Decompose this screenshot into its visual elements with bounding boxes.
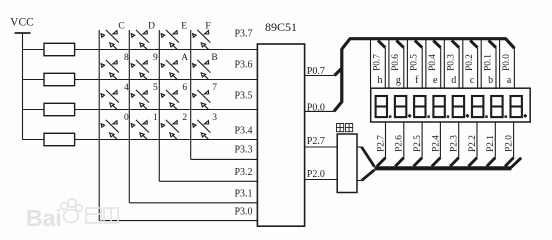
decimal point 5 (diamond)	[465, 114, 469, 118]
column wire 3	[158, 30, 160, 181]
key switch "9"	[131, 60, 149, 79]
svg-text:P2.7: P2.7	[376, 135, 386, 152]
display digit 3	[414, 96, 425, 117]
P2 bus end tick	[511, 158, 522, 168]
display digit 1	[376, 96, 387, 117]
svg-text:P2.3: P2.3	[450, 135, 460, 152]
decimal point 8 (diamond)	[523, 114, 527, 118]
column 1 elbow to P3.0	[99, 220, 257, 222]
svg-text:P0.3: P0.3	[447, 54, 457, 71]
stub wire P2.0	[305, 179, 338, 181]
svg-text:P3.2: P3.2	[234, 167, 252, 178]
svg-text:P2.7: P2.7	[307, 136, 325, 147]
display digit 8	[511, 96, 522, 117]
svg-text:h: h	[377, 75, 382, 86]
svg-text:a: a	[507, 75, 512, 86]
display anode band P0.2/c	[463, 40, 478, 88]
svg-text:VCC: VCC	[10, 17, 34, 29]
display digit 6	[472, 96, 483, 117]
svg-text:b: b	[488, 75, 493, 86]
resistor R4	[44, 133, 75, 145]
svg-text:P0.7: P0.7	[307, 66, 325, 77]
decimal point 2 (diamond)	[408, 114, 412, 118]
column wire 1	[98, 30, 100, 221]
display cathode wire P2.1	[494, 122, 496, 158]
svg-text:C: C	[118, 21, 124, 31]
svg-text:8: 8	[124, 53, 129, 63]
display anode band P0.1/b	[481, 40, 496, 88]
display anode band P0.3/d	[444, 40, 459, 88]
decimal point 3	[427, 115, 430, 118]
decimal point 7	[505, 115, 508, 118]
svg-text:E: E	[181, 21, 187, 31]
VCC vertical rail wire	[22, 33, 24, 140]
svg-text:7: 7	[212, 83, 217, 93]
svg-text:D: D	[148, 21, 155, 31]
svg-text:F: F	[205, 21, 210, 31]
key switch "8"	[101, 60, 119, 79]
P0 data bus	[334, 39, 514, 112]
svg-text:5: 5	[153, 83, 158, 93]
display digit 2	[395, 96, 406, 117]
svg-text:P3.6: P3.6	[234, 60, 252, 71]
svg-text:c: c	[470, 75, 475, 86]
driver block body	[337, 134, 357, 193]
svg-text:P0.7: P0.7	[373, 54, 383, 71]
key switch "4"	[101, 90, 119, 109]
row wire P3.4 y=139.5	[23, 139, 258, 141]
svg-text:P0.0: P0.0	[307, 102, 325, 113]
driver out notch top	[357, 146, 362, 148]
resistor R2	[44, 73, 75, 85]
svg-text:P0.4: P0.4	[428, 54, 438, 71]
decimal point 6	[485, 115, 488, 118]
svg-text:g: g	[396, 75, 401, 86]
svg-text:P3.7: P3.7	[234, 29, 252, 40]
svg-text:89C51: 89C51	[265, 20, 297, 34]
row wire P3.7 y=49.5	[23, 49, 258, 51]
svg-text:P0.1: P0.1	[483, 54, 493, 71]
svg-text:6: 6	[182, 83, 187, 93]
svg-text:P2.1: P2.1	[486, 135, 496, 152]
key switch "2"	[161, 120, 179, 139]
svg-text:P2.0: P2.0	[505, 135, 515, 152]
8-digit 7-segment display body	[371, 88, 531, 122]
key switch "1"	[131, 120, 149, 139]
svg-text:A: A	[181, 53, 188, 63]
key switch "F"	[193, 30, 211, 49]
driver funnel diagonal bottom	[362, 170, 375, 181]
svg-text:P2.4: P2.4	[431, 135, 441, 152]
P2 select bus	[374, 166, 511, 170]
display cathode wire P2.3	[458, 122, 460, 158]
resistor R1	[44, 43, 75, 55]
resistor R3	[44, 103, 75, 115]
column 3 elbow to P3.2	[159, 180, 257, 182]
column 4 elbow to P3.3	[191, 158, 258, 160]
decimal point 4	[447, 115, 450, 118]
svg-text:P0.6: P0.6	[391, 54, 401, 71]
svg-text:P0.2: P0.2	[465, 54, 475, 71]
key switch "6"	[161, 90, 179, 109]
key switch "3"	[193, 120, 211, 139]
display digit 7	[491, 96, 502, 117]
svg-text:P2.0: P2.0	[307, 169, 325, 180]
key switch "E"	[161, 30, 179, 49]
svg-text:9: 9	[153, 53, 158, 63]
svg-text:P3.5: P3.5	[234, 91, 252, 102]
svg-text:1: 1	[153, 113, 158, 123]
display anode band P0.7/h	[371, 40, 386, 88]
column wire 4	[190, 30, 192, 159]
svg-text:P2.2: P2.2	[468, 135, 478, 152]
svg-text:P0.0: P0.0	[502, 54, 512, 71]
key switch "C"	[101, 30, 119, 49]
row wire P3.6 y=79.5	[23, 79, 258, 81]
stub wire P0.7	[305, 75, 335, 77]
key switch "0"	[101, 120, 119, 139]
svg-text:Bai: Bai	[26, 205, 62, 231]
display digit 5	[453, 96, 464, 117]
display cathode wire P2.5	[421, 122, 423, 158]
svg-text:P3.0: P3.0	[234, 207, 252, 218]
VCC rail bar	[15, 32, 31, 34]
svg-text:2: 2	[182, 113, 187, 123]
display cathode wire P2.4	[439, 122, 441, 158]
svg-text:e: e	[433, 75, 438, 86]
stub wire P2.7	[305, 146, 338, 148]
driver funnel diagonal top	[362, 147, 375, 167]
svg-text:P2.5: P2.5	[413, 135, 423, 152]
stub wire P0.0	[305, 110, 334, 112]
svg-text:4: 4	[124, 83, 129, 93]
bus entry from P0.7	[335, 68, 342, 75]
column wire 2	[128, 30, 130, 203]
display anode band P0.0/a	[500, 40, 515, 88]
driver label "qu dong" (CJK)	[337, 124, 344, 132]
driver out notch bottom	[357, 180, 362, 182]
display cathode wire P2.7	[385, 122, 387, 158]
key switch "5"	[131, 90, 149, 109]
display cathode wire P2.0	[513, 122, 515, 158]
key switch "D"	[131, 30, 149, 49]
display anode band P0.4/e	[426, 40, 441, 88]
svg-text:P3.3: P3.3	[234, 145, 252, 156]
column 2 elbow to P3.1	[129, 202, 257, 204]
decimal point 1	[389, 115, 392, 118]
svg-text:B: B	[211, 53, 217, 63]
svg-text:d: d	[451, 75, 456, 86]
svg-text:P0.5: P0.5	[410, 54, 420, 71]
display anode band P0.5/f	[407, 40, 422, 88]
key switch "B"	[193, 60, 211, 79]
svg-text:3: 3	[212, 113, 217, 123]
key switch "7"	[193, 90, 211, 109]
display cathode wire P2.6	[403, 122, 405, 158]
display digit 4	[433, 96, 444, 117]
89C51 MCU U1 body	[257, 44, 304, 226]
key switch "A"	[161, 60, 179, 79]
svg-text:P3.1: P3.1	[234, 189, 252, 200]
svg-text:0: 0	[124, 113, 129, 123]
row wire P3.5 y=109.5	[23, 109, 258, 111]
svg-text:P3.4: P3.4	[234, 126, 252, 137]
watermark (decorative)	[26, 199, 118, 231]
display cathode wire P2.2	[476, 122, 478, 158]
svg-text:P2.6: P2.6	[395, 135, 405, 152]
display anode band P0.6/g	[389, 40, 404, 88]
